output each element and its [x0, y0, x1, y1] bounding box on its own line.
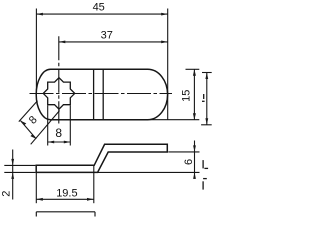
bend line left (top view)	[93, 69, 95, 119]
partial bottom dimension (clipped at edge)	[36, 212, 95, 217]
dimension 37	[59, 41, 168, 44]
dimension 8 at 45 degrees (star diagonal flats)	[19, 101, 60, 145]
dimension 2 (thickness)	[4, 150, 35, 200]
vertical centerline / 37 extension line	[58, 36, 60, 123]
svg-text:6: 6	[183, 159, 195, 165]
dimension 8 (star across flats)	[48, 106, 71, 146]
extension of bottom edge to dimension 6	[98, 171, 200, 173]
svg-text:45: 45	[93, 2, 105, 14]
top view: cam plate outline	[36, 69, 167, 119]
side view: cranked cam outline	[36, 144, 167, 172]
svg-text:2: 2	[1, 191, 13, 197]
dimension 19.5	[36, 166, 94, 204]
horizontal centerline (top view)	[30, 93, 173, 95]
dimension 6 (crank offset)	[193, 141, 196, 179]
extension of upper-bar bottom edge to dimension 6	[168, 151, 199, 153]
svg-text:15: 15	[180, 90, 192, 102]
svg-text:8: 8	[55, 126, 62, 140]
right outer dimension (label clipped at edge)	[201, 73, 212, 125]
dimension 15	[147, 69, 199, 119]
dimension 45	[36, 9, 167, 120]
bend line right (top view)	[102, 69, 104, 119]
svg-text:19.5: 19.5	[56, 187, 77, 199]
right edge glyph fragments (clipped label)	[203, 160, 208, 190]
star mounting hole	[43, 78, 75, 110]
svg-text:37: 37	[101, 30, 113, 42]
